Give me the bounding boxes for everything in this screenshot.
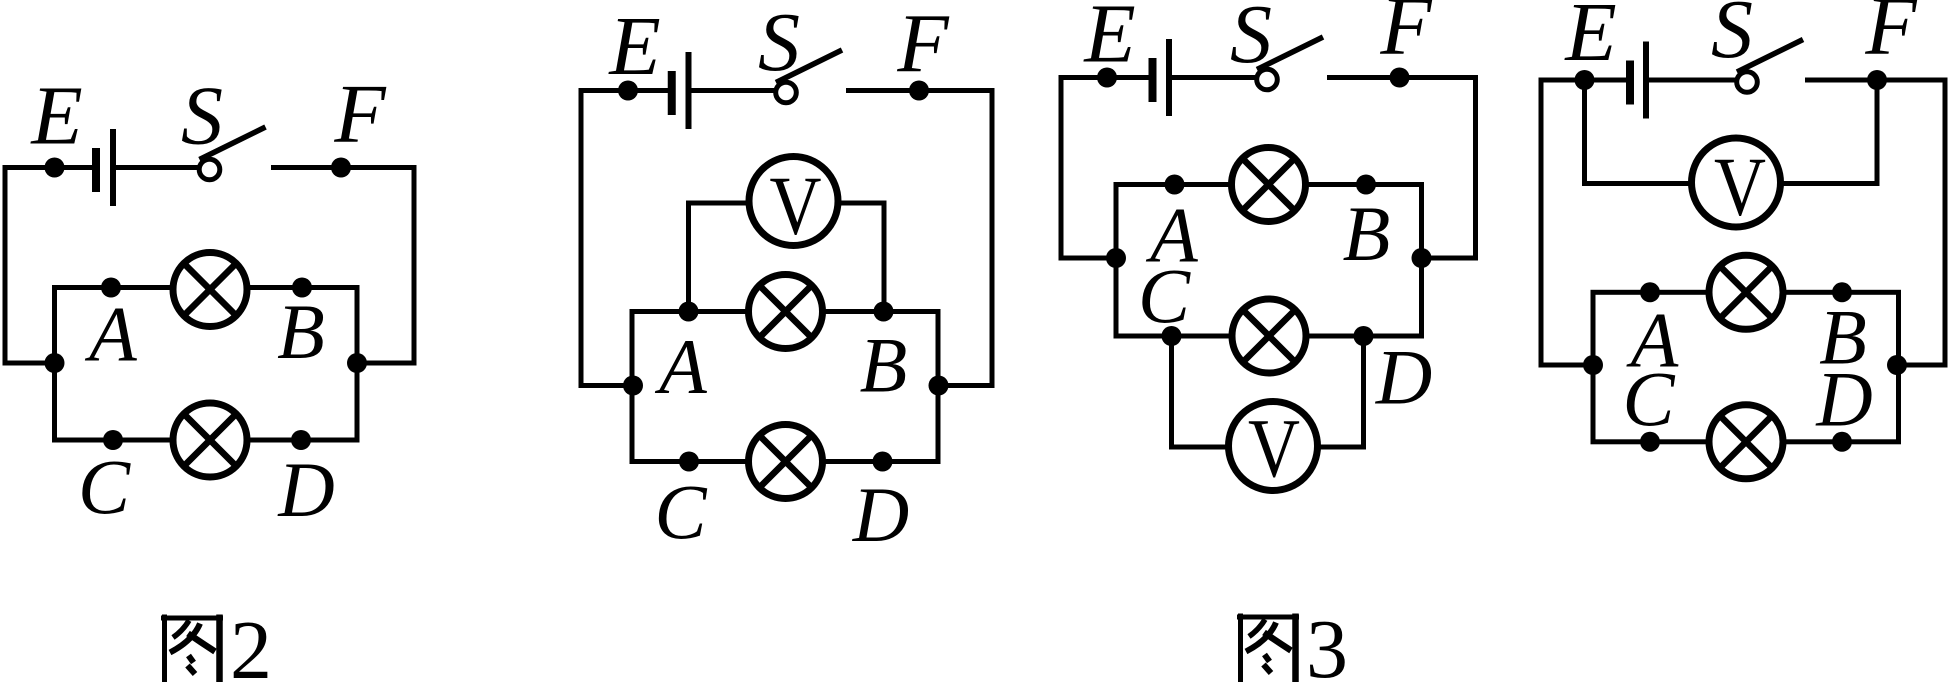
node B dot (circuit 1) [292, 278, 312, 298]
node F dot (circuit 2) [909, 81, 929, 101]
wire: circuit1 switch to right loop [271, 168, 414, 364]
svg-text:C: C [654, 469, 707, 556]
svg-text:D: D [852, 471, 909, 558]
switch S (circuit 4) [1737, 72, 1758, 93]
switch S (circuit 1) [199, 159, 220, 180]
wire: circuit1 battery to switch [116, 165, 198, 170]
node D dot (circuit 1) [291, 430, 311, 450]
svg-text:C: C [78, 444, 131, 531]
lamp L2 between C and D (circuit 4) [1709, 405, 1783, 479]
battery E (circuit 1) [92, 148, 100, 192]
wire: circuit3 parallel bracket rectangle [1116, 185, 1422, 337]
node A dot (circuit 2) [679, 302, 699, 322]
svg-text:C: C [1622, 356, 1675, 443]
svg-text:S: S [1711, 0, 1753, 76]
node E dot (circuit 2) [618, 81, 638, 101]
node C dot (circuit 1) [103, 430, 123, 450]
battery E (circuit 3) [1149, 58, 1157, 102]
wire: circuit1 left loop E-side [5, 168, 96, 364]
battery E (circuit 2) [668, 71, 676, 115]
node B dot (circuit 2) [874, 302, 894, 322]
lamp L1 between A and B (circuit 2) [749, 275, 823, 349]
battery E (circuit 4) [1626, 61, 1634, 105]
lamp L1 between A and B (circuit 1) [173, 253, 247, 327]
wire: circuit4 voltmeter bracket [1585, 80, 1878, 184]
wire: circuit1 parallel bracket rectangle [55, 288, 358, 441]
wire: circuit4 parallel bracket rectangle [1593, 292, 1899, 442]
svg-text:F: F [1864, 0, 1918, 73]
wire: circuit3 battery to switch [1171, 75, 1255, 80]
caption glyph tu (figure 3) [1237, 614, 1299, 682]
node C dot (circuit 2) [679, 452, 699, 472]
wire: circuit2 parallel bracket rectangle [632, 312, 938, 462]
lamp L2 between C and D (circuit 1) [173, 403, 247, 477]
svg-text:3: 3 [1306, 603, 1348, 682]
svg-text:B: B [860, 322, 908, 409]
svg-text:D: D [1375, 334, 1432, 421]
svg-text:E: E [1564, 0, 1616, 79]
voltmeter V (circuit 4) [1692, 138, 1781, 234]
lamp L1 between A and B (circuit 3) [1232, 148, 1306, 222]
svg-text:A: A [84, 291, 137, 378]
junction dot right (circuit 1) [347, 353, 367, 373]
wire: circuit2 switch to right loop [846, 91, 992, 386]
switch S (circuit 2) [776, 82, 797, 103]
junction dot left (circuit 3) [1106, 248, 1126, 268]
svg-text:S: S [1230, 0, 1272, 81]
wire: circuit2 left loop E-side [581, 91, 673, 386]
lamp L2 between C and D (circuit 3) [1232, 299, 1306, 373]
node F dot (circuit 1) [331, 158, 351, 178]
node E dot (circuit 1) [45, 158, 65, 178]
voltmeter V (circuit 3) [1229, 402, 1318, 496]
node E dot (circuit 4) [1575, 70, 1595, 90]
wire: circuit3 switch to right loop [1327, 78, 1476, 259]
svg-text:D: D [277, 446, 334, 533]
wire: circuit4 battery to switch [1648, 78, 1735, 83]
switch S (circuit 3) [1257, 69, 1278, 90]
svg-text:F: F [1379, 0, 1433, 73]
junction dot left (circuit 4) [1583, 355, 1603, 375]
svg-text:F: F [333, 68, 387, 161]
caption glyph tu (figure 2) [161, 615, 223, 682]
wire: circuit3 left loop E-side [1061, 78, 1152, 259]
node C dot (circuit 4) [1640, 432, 1660, 452]
node F dot (circuit 3) [1390, 68, 1410, 88]
svg-text:V: V [770, 160, 822, 253]
svg-text:F: F [896, 0, 950, 90]
svg-text:B: B [277, 288, 325, 375]
junction dot right (circuit 4) [1887, 355, 1907, 375]
wire: circuit3 voltmeter bracket [1172, 336, 1364, 447]
svg-text:V: V [1248, 402, 1300, 495]
svg-text:E: E [30, 70, 82, 163]
junction dot right (circuit 2) [929, 376, 949, 396]
node D dot (circuit 3) [1354, 326, 1374, 346]
wire: circuit2 battery to switch [690, 88, 774, 93]
lamp L2 between C and D (circuit 2) [749, 425, 823, 499]
wire: circuit2 voltmeter bracket [689, 203, 885, 312]
svg-text:S: S [181, 70, 223, 163]
node E dot (circuit 3) [1097, 68, 1117, 88]
node B dot (circuit 4) [1832, 282, 1852, 302]
node D dot (circuit 2) [873, 452, 893, 472]
svg-text:E: E [608, 0, 660, 93]
junction dot left (circuit 2) [623, 376, 643, 396]
node A dot (circuit 3) [1165, 175, 1185, 195]
junction dot right (circuit 3) [1412, 248, 1432, 268]
node A dot (circuit 4) [1640, 282, 1660, 302]
node B dot (circuit 3) [1356, 175, 1376, 195]
svg-text:B: B [1343, 190, 1391, 277]
voltmeter V (circuit 2) [749, 157, 838, 253]
svg-text:D: D [1815, 356, 1872, 443]
lamp L1 between A and B (circuit 4) [1709, 255, 1783, 329]
svg-text:A: A [654, 323, 707, 410]
wire: circuit4 left loop E-side [1541, 80, 1630, 365]
svg-text:V: V [1714, 141, 1766, 234]
node C dot (circuit 3) [1162, 326, 1182, 346]
node F dot (circuit 4) [1867, 70, 1887, 90]
svg-text:S: S [758, 0, 800, 89]
svg-text:E: E [1083, 0, 1135, 81]
junction dot left (circuit 1) [45, 353, 65, 373]
wire: circuit4 switch to right loop [1805, 80, 1945, 365]
node A dot (circuit 1) [101, 278, 121, 298]
svg-text:2: 2 [230, 604, 272, 682]
node D dot (circuit 4) [1832, 432, 1852, 452]
svg-text:C: C [1138, 253, 1191, 340]
